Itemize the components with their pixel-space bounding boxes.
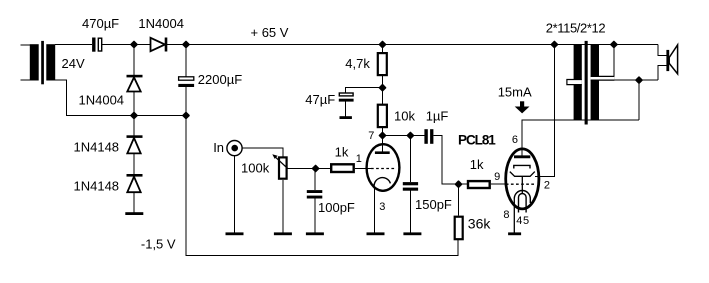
svg-text:1k: 1k [335,145,349,160]
svg-text:470µF: 470µF [82,16,119,31]
node 2200uF top on +65V rail [182,40,190,48]
wire D2 top [133,45,135,76]
anode plate [375,151,390,154]
wire tube1 cathode to ground [374,189,376,234]
wire junction to 1k grid resistor [459,183,467,185]
svg-text:+ 65 V: + 65 V [251,25,289,40]
wire D1 cathode to +65V rail [167,44,658,46]
svg-text:36k: 36k [468,216,492,232]
svg-text:1N4004: 1N4004 [138,16,184,31]
svg-text:1k: 1k [470,157,484,172]
ground triode cathode [367,232,385,235]
svg-text:47µF: 47µF [305,92,335,107]
ground 150pF [403,232,421,235]
node pot wiper / 100pF [311,164,319,172]
capacitor C1 470uF [92,38,102,52]
wire secondary top to 470uF [55,44,92,46]
wire jack to pot [243,148,283,156]
terminal bar below 1N4148 chain [125,212,143,215]
svg-text:7: 7 [368,130,374,142]
node speaker return [635,76,643,84]
wire pot wiper to grid node [288,168,330,170]
wire pot bottom [282,180,284,234]
wire OPT secondary tap [613,45,615,81]
svg-text:9: 9 [494,171,500,183]
diode D4 1N4148 [127,175,143,192]
capacitor C2 2200uF [178,77,194,87]
wire 47uF tap [345,88,382,93]
wire between 1N4148 diodes [133,154,135,175]
svg-text:2*115/2*12: 2*115/2*12 [546,21,606,36]
heater [519,194,527,213]
wire anode node [383,135,425,137]
node 4.7k top on +65V rail [378,40,386,48]
cathode arc [374,178,390,189]
wire PCL81 anode to OPT bottom [522,120,639,157]
capacitor C6 1uF [424,129,433,144]
wire 1k to pin 9 [491,183,506,185]
wire 1N4148 chain [133,116,135,137]
capacitor C4 100pF [307,190,323,198]
wire 150pF bottom stem [409,191,411,234]
node pentode grid / 36k [454,180,462,188]
suppressor stem to cathode [521,176,523,193]
capacitor C3 47uF [339,93,354,119]
ground pot [274,232,292,235]
node triode anode [378,131,386,139]
wire 4.7k to 10k [382,76,384,106]
wire tap line to speaker [614,79,658,81]
input jack In [227,141,242,156]
wire 36k top [458,184,460,216]
wire below 1N4148 D4 [133,193,135,213]
wire grid node to 1k [355,168,371,170]
screen grid g2 [514,165,530,168]
resistor R3 1k (triode grid) [331,164,354,172]
secondary centre tap channel [591,76,615,80]
beam plates bar with wings (pin 2) [510,172,535,177]
node 2200uF bottom on return rail [182,111,190,119]
svg-text:6: 6 [512,134,518,146]
resistor R2 10k [378,105,387,127]
diode D1 1N4004 horizontal [151,38,167,52]
tube V1 triode (half ECC/PCL) [367,144,400,191]
wire D2 bottom [133,92,135,116]
svg-text:100k: 100k [241,161,270,176]
wire speaker upper dogleg [658,45,666,56]
15mA arrow [515,101,530,113]
wire 470uF to node A [102,44,151,46]
cathode arc [514,191,530,204]
node OPT tap feed on +65V rail [610,40,618,48]
wire tap node down to anode line [638,80,640,120]
wire 100pF top stem [314,169,316,191]
transformer T2 output 2*115/2*12 [567,41,615,125]
speaker LS1 [666,45,677,74]
wire 150pF top stem [409,136,411,183]
anode plate [514,155,530,158]
control grid dashed [506,183,535,185]
wire tube1 anode stem [381,136,383,153]
svg-text:150pF: 150pF [415,197,452,212]
svg-text:1: 1 [356,153,362,165]
svg-text:15mA: 15mA [498,85,532,100]
diode D3 1N4148 [127,137,143,154]
node 150pF top [406,131,414,139]
primary centre tap stub [567,80,582,85]
wire speaker lower dogleg [658,66,666,81]
wire 10k bottom [382,127,384,136]
node 47uF tap between 4.7k and 10k [378,84,386,92]
potentiometer P1 100k [272,154,287,179]
ground symbols [226,232,522,235]
svg-text:1N4004: 1N4004 [79,93,125,108]
node rectifier output on +65V rail [130,40,138,48]
node 1N4148 chain on return rail [130,111,138,119]
wire 1uF to grid junction [433,136,458,185]
wire mains primary top stub [20,44,30,46]
ground 100pF [306,232,324,235]
wire -1.5V rail [186,116,458,256]
svg-text:4,7k: 4,7k [345,56,370,71]
diode D2 1N4004 vertical [127,76,143,91]
capacitor C5 150pF [403,182,418,191]
svg-text:1N4148: 1N4148 [74,178,120,193]
wire 2200uF top [185,45,187,77]
ground jack [226,232,244,235]
svg-text:24V: 24V [62,56,85,71]
ground PCL81 cathode [508,232,521,235]
svg-text:4: 4 [516,215,522,227]
svg-text:8: 8 [503,209,509,221]
resistor R4 1k (pentode grid) [468,181,490,188]
resistor R1 4,7k [378,53,387,75]
wire secondary bottom step [55,80,186,115]
transformer T1 mains 24V [30,41,55,84]
grid dashed [371,168,396,170]
svg-text:1N4148: 1N4148 [74,140,120,155]
svg-text:100pF: 100pF [318,200,355,215]
node screen feed on +65V rail [550,40,558,48]
svg-text:1µF: 1µF [426,109,449,124]
wire 2200uF bottom [185,87,187,116]
svg-text:10k: 10k [394,108,415,123]
wire 4.7k top [382,45,384,54]
svg-text:3: 3 [379,201,385,213]
svg-text:-1,5 V: -1,5 V [141,237,176,252]
wire mains primary bottom stub [20,79,30,81]
wire jack ground stem [234,156,236,234]
cathode leg pin 8 [513,199,515,234]
svg-text:In: In [213,140,224,155]
svg-text:PCL81: PCL81 [458,133,496,148]
svg-text:5: 5 [523,215,529,227]
tube V2 PCL81 pentode [506,149,539,234]
wire pin2 screen to rail [535,45,554,177]
svg-text:2: 2 [544,179,550,191]
wire 100pF bottom stem [314,198,316,233]
wire 47uF ground stem [344,102,346,117]
svg-text:2200µF: 2200µF [198,72,242,87]
resistor R5 36k [455,217,463,240]
